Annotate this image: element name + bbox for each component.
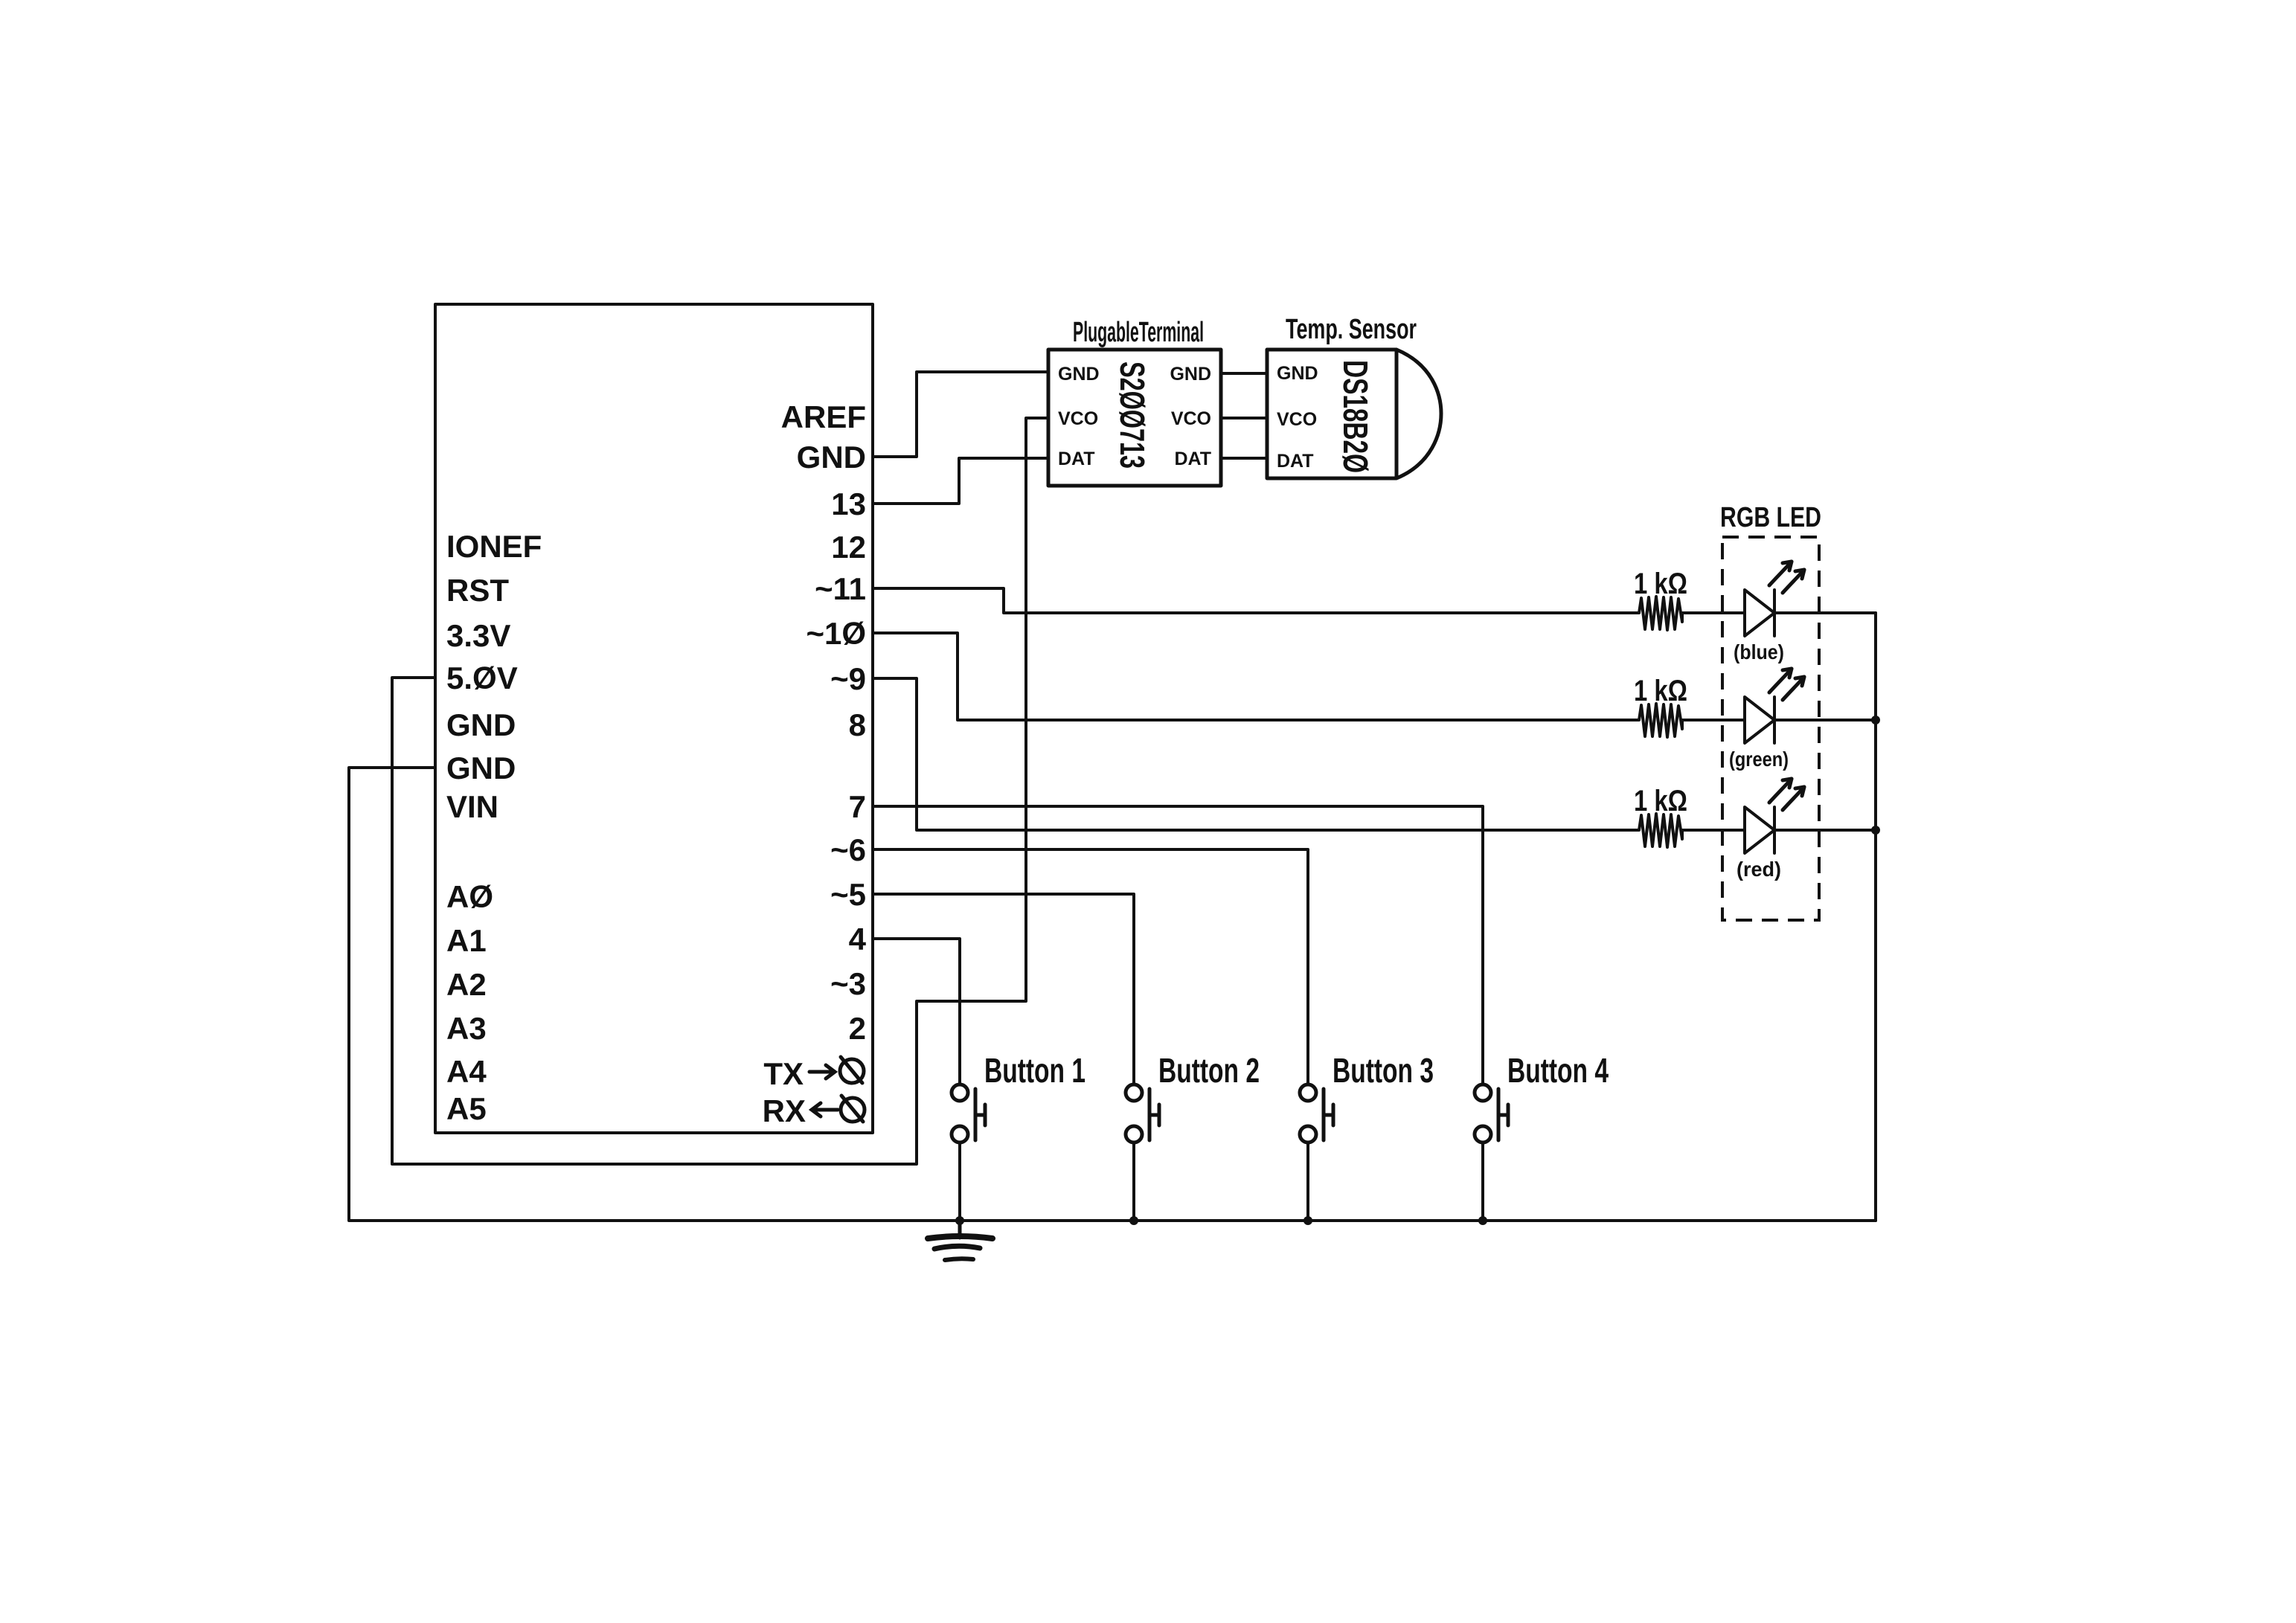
wire J1 VCO to U2 VCO xyxy=(1221,417,1267,420)
svg-text:1 kΩ: 1 kΩ xyxy=(1634,568,1687,600)
U1 pin label RX with arrow and slashed-circle xyxy=(763,1093,865,1128)
junction SW1/ground rail xyxy=(955,1216,964,1225)
resistor R-green 1k ohm xyxy=(1639,704,1682,737)
svg-text:AØ: AØ xyxy=(446,879,493,914)
svg-text:DAT: DAT xyxy=(1174,449,1211,469)
junction SW2/ground rail xyxy=(1129,1216,1138,1225)
ground symbol xyxy=(928,1221,993,1260)
LED D-green symbol xyxy=(1745,697,1774,743)
U1 pin label TX with arrow and slashed-circle xyxy=(763,1056,864,1091)
svg-text:12: 12 xyxy=(831,530,866,565)
resistor R-blue 1k ohm xyxy=(1639,597,1682,630)
svg-text:~3: ~3 xyxy=(830,966,866,1001)
svg-text:TX: TX xyxy=(763,1056,804,1091)
svg-text:VCO: VCO xyxy=(1277,409,1317,430)
junction green cathode/bus xyxy=(1871,716,1880,724)
terminal block J1 "PlugableTerminal" body xyxy=(1048,350,1221,486)
svg-text:S2ØØ713: S2ØØ713 xyxy=(1113,361,1152,469)
wire U1 pin4 to SW1 xyxy=(873,939,960,1084)
pushbutton SW1 contacts xyxy=(952,1084,968,1142)
svg-text:7: 7 xyxy=(849,789,866,824)
svg-text:Button 4: Button 4 xyxy=(1507,1051,1609,1090)
wire U1 pin9 to R-red xyxy=(873,678,1639,830)
wire SW3 to ground rail xyxy=(1306,1142,1309,1221)
wire U1 pin7 to SW4 xyxy=(873,806,1483,1084)
svg-text:VCO: VCO xyxy=(1171,408,1211,429)
junction SW4/ground rail xyxy=(1478,1216,1487,1225)
svg-text:DAT: DAT xyxy=(1058,449,1095,469)
svg-text:A3: A3 xyxy=(446,1011,487,1046)
svg-text:RST: RST xyxy=(446,573,509,608)
svg-text:GND: GND xyxy=(446,707,516,742)
temperature sensor U2 DS18B20 body xyxy=(1267,350,1441,478)
svg-text:~9: ~9 xyxy=(830,661,866,696)
resistor R-red 1k ohm xyxy=(1639,814,1682,847)
wire D-green cathode to bus xyxy=(1774,719,1876,721)
svg-text:A5: A5 xyxy=(446,1091,487,1126)
wire SW4 to ground rail xyxy=(1481,1142,1484,1221)
svg-text:5.ØV: 5.ØV xyxy=(446,661,518,695)
svg-text:A2: A2 xyxy=(446,967,487,1002)
svg-text:DAT: DAT xyxy=(1277,451,1314,472)
svg-text:Temp. Sensor: Temp. Sensor xyxy=(1286,314,1417,345)
svg-text:AREF: AREF xyxy=(781,399,866,434)
svg-text:GND: GND xyxy=(1170,364,1211,385)
wire D-blue cathode to bus xyxy=(1774,611,1876,614)
svg-text:PlugableTerminal: PlugableTerminal xyxy=(1073,317,1204,348)
svg-text:(red): (red) xyxy=(1737,858,1781,881)
svg-text:GND: GND xyxy=(1277,363,1318,384)
svg-text:~6: ~6 xyxy=(830,832,866,867)
svg-text:(blue): (blue) xyxy=(1734,640,1784,663)
wire R-green to D-green anode xyxy=(1682,719,1745,721)
wire J1 DAT to U2 DAT xyxy=(1221,457,1267,460)
LED D-red emission arrows xyxy=(1769,779,1804,810)
svg-text:3.3V: 3.3V xyxy=(446,618,510,653)
LED D-blue emission arrows xyxy=(1769,562,1804,593)
svg-text:1 kΩ: 1 kΩ xyxy=(1634,675,1687,707)
wire U1 pin10 to R-green xyxy=(873,633,1639,720)
wire cathode bus down right side xyxy=(1874,613,1877,1221)
svg-text:VIN: VIN xyxy=(446,789,498,824)
svg-text:GND: GND xyxy=(797,440,866,475)
junction SW3/ground rail xyxy=(1303,1216,1312,1225)
pushbutton SW2 contacts xyxy=(1126,1084,1142,1142)
wire U1 GND2 to ground rail xyxy=(349,768,1876,1221)
svg-text:GND: GND xyxy=(1058,364,1100,385)
svg-text:IONEF: IONEF xyxy=(446,529,542,564)
wire R-red to D-red anode xyxy=(1682,829,1745,832)
wire R-blue to D-blue anode xyxy=(1682,611,1745,614)
LED D-green emission arrows xyxy=(1769,669,1804,700)
svg-text:1 kΩ: 1 kΩ xyxy=(1634,785,1687,817)
svg-text:~1Ø: ~1Ø xyxy=(806,616,866,651)
wire SW2 to ground rail xyxy=(1132,1142,1135,1221)
wire U1 pin11 to R-blue xyxy=(873,588,1639,613)
svg-text:4: 4 xyxy=(849,922,867,957)
svg-text:(green): (green) xyxy=(1729,748,1789,771)
svg-text:2: 2 xyxy=(849,1011,866,1046)
pushbutton SW3 actuator xyxy=(1324,1089,1333,1140)
LED D-red symbol xyxy=(1745,807,1774,853)
wire U1 pin5 to SW2 xyxy=(873,894,1134,1084)
pushbutton SW1 actuator xyxy=(975,1089,985,1140)
wire SW1 to ground rail xyxy=(958,1142,961,1221)
wire U1 pin13 to J1 DAT xyxy=(873,458,1048,504)
svg-text:Button 1: Button 1 xyxy=(984,1051,1086,1090)
svg-text:8: 8 xyxy=(849,707,866,742)
pushbutton SW2 actuator xyxy=(1149,1089,1159,1140)
wire U1 pin6 to SW3 xyxy=(873,849,1308,1084)
RGB LED module dashed outline xyxy=(1722,537,1819,920)
pushbutton SW3 contacts xyxy=(1300,1084,1316,1142)
junction red cathode/bus xyxy=(1871,826,1880,835)
svg-text:RGB LED: RGB LED xyxy=(1720,502,1821,533)
microcontroller U1 (Arduino) body xyxy=(435,304,873,1133)
svg-text:~5: ~5 xyxy=(830,877,866,912)
pushbutton SW4 actuator xyxy=(1498,1089,1508,1140)
svg-text:A1: A1 xyxy=(446,923,487,958)
svg-text:DS18B2Ø: DS18B2Ø xyxy=(1336,360,1375,473)
wire J1 GND to U2 GND xyxy=(1221,372,1267,375)
pushbutton SW4 contacts xyxy=(1475,1084,1491,1142)
svg-text:13: 13 xyxy=(831,486,866,521)
svg-text:A4: A4 xyxy=(446,1054,487,1089)
svg-text:VCO: VCO xyxy=(1058,408,1098,429)
wire D-red cathode to bus xyxy=(1774,829,1876,832)
svg-text:Button 3: Button 3 xyxy=(1333,1051,1434,1090)
svg-text:GND: GND xyxy=(446,751,516,785)
svg-text:Button 2: Button 2 xyxy=(1158,1051,1260,1090)
wire U1 GND to J1 GND xyxy=(873,372,1048,457)
svg-text:RX: RX xyxy=(763,1093,806,1128)
svg-text:~11: ~11 xyxy=(815,571,866,606)
wire J1 VCO loop to U1 5.0V xyxy=(392,418,1048,1164)
LED D-blue symbol xyxy=(1745,590,1774,636)
